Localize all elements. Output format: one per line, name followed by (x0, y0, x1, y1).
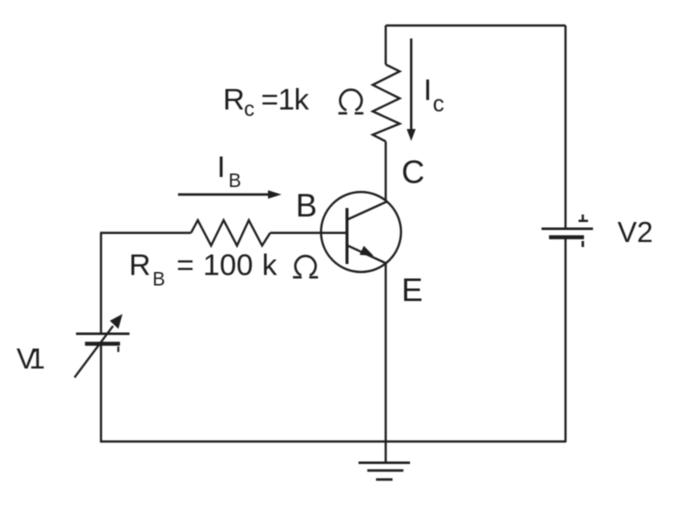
battery V1 bottom plate (short thick) (85, 342, 120, 346)
battery V2 top plate (long) (542, 227, 594, 230)
svg-text:V2: V2 (618, 217, 653, 249)
svg-text:I: I (424, 74, 432, 107)
ground symbol (359, 462, 411, 465)
svg-text:R: R (223, 84, 245, 117)
svg-text:C: C (402, 154, 425, 190)
wire top (collector rail to V2) (386, 24, 566, 26)
svg-text:=: = (177, 249, 195, 282)
battery V2 minus tick (582, 241, 585, 247)
battery V2 plus mark (579, 215, 589, 221)
resistor RC zigzag (373, 65, 400, 142)
svg-text:1: 1 (278, 84, 295, 117)
wire left lower (V1 bottom plate to bottom rail) (100, 345, 102, 443)
svg-text:c: c (433, 91, 445, 117)
svg-text:k: k (262, 249, 278, 282)
transistor Q1 circle (321, 192, 401, 272)
svg-text:=: = (261, 84, 279, 117)
wire bottom rail (100, 440, 566, 442)
svg-text:100: 100 (203, 249, 253, 282)
battery V1 polarity tick (117, 347, 119, 353)
wire collector stub upper (top rail to RC) (385, 26, 387, 65)
svg-text:I: I (217, 151, 225, 184)
transistor Q1 collector lead (348, 202, 387, 220)
wire right upper (top rail down to V2 plus plate) (564, 26, 566, 229)
wire base right (RB to transistor base) (270, 232, 346, 234)
transistor Q1 emitter arrowhead (360, 246, 374, 256)
svg-text:c: c (244, 98, 255, 121)
svg-text:B: B (153, 270, 166, 291)
wire collector stub lower (RC to transistor collector) (385, 141, 387, 203)
resistor RB zigzag (191, 220, 270, 245)
transistor Q1 emitter lead (348, 246, 387, 264)
battery V2 bottom plate (short thick) (549, 235, 584, 239)
battery V1 variable arrow diagonal (75, 326, 114, 378)
current arrow IC (410, 39, 412, 132)
svg-text:R: R (129, 249, 151, 282)
svg-text:k: k (294, 84, 310, 117)
battery V1 top plate (long) (76, 333, 130, 336)
wire base left (V1 node to RB) (100, 232, 191, 234)
wire left upper (base node down to V1 top plate) (100, 233, 102, 333)
wire right lower (V2 minus plate down to bottom rail) (564, 238, 566, 443)
current arrow IB (178, 193, 270, 195)
transistor Q1 base bar (346, 208, 349, 264)
svg-text:1: 1 (29, 344, 45, 376)
svg-text:B: B (229, 171, 242, 192)
svg-text:B: B (296, 188, 317, 224)
wire emitter (transistor to ground node) (385, 263, 387, 463)
svg-text:E: E (402, 272, 423, 308)
